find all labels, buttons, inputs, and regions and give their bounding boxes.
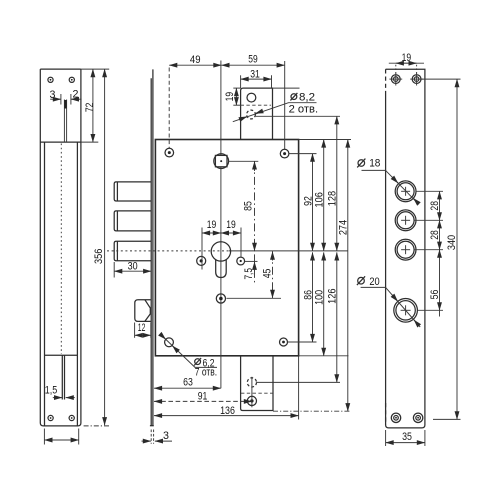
tab hidden hole circle bbox=[247, 110, 256, 119]
dim 106 bbox=[314, 140, 326, 251]
svg-text:19: 19 bbox=[226, 219, 236, 231]
svg-text:28: 28 bbox=[429, 201, 441, 211]
dim 128 bbox=[327, 116, 339, 251]
dim 72 bbox=[84, 69, 96, 142]
svg-text:92: 92 bbox=[302, 196, 314, 206]
plate screw hole top-left bbox=[389, 73, 402, 86]
deadbolt 1 bbox=[114, 182, 151, 201]
dim 274 bbox=[338, 140, 350, 412]
faceplate inner left fold line bbox=[44, 142, 46, 426]
latch hole D dia 20 bbox=[394, 299, 418, 323]
lock case body outline bbox=[155, 140, 298, 356]
bottom tab vertical line bbox=[251, 377, 253, 408]
plate screw hole bottom-right bbox=[413, 413, 422, 422]
dim 85 line dashdot bbox=[242, 161, 254, 283]
euro cylinder keyhole bbox=[211, 242, 230, 278]
top tab outline bbox=[241, 88, 273, 139]
dim 30 bbox=[114, 261, 151, 278]
extension of 72 dim at y=142 bbox=[81, 141, 98, 143]
crossbolt hole B bbox=[395, 210, 416, 231]
fixing hole right of cylinder bbox=[237, 257, 245, 265]
horizontal centerline bbox=[107, 250, 348, 252]
svg-text:63: 63 bbox=[183, 376, 193, 388]
dim 126 bbox=[327, 252, 339, 382]
dim 19 right of axis bbox=[221, 219, 241, 233]
svg-text:3: 3 bbox=[163, 430, 169, 442]
bottom tab hidden hole bbox=[247, 378, 256, 387]
screw hole top-right bbox=[69, 77, 74, 82]
svg-text:19: 19 bbox=[224, 92, 236, 102]
svg-text:356: 356 bbox=[93, 249, 105, 264]
svg-text:8,2: 8,2 bbox=[299, 91, 315, 103]
svg-text:18: 18 bbox=[369, 157, 380, 169]
strike box plate outline bbox=[386, 69, 425, 428]
svg-text:19: 19 bbox=[402, 52, 412, 64]
faceplate inner right fold line bbox=[76, 142, 78, 426]
dim 28 lower bbox=[414, 220, 444, 249]
case screw hole upper-right bbox=[280, 149, 316, 158]
dim 340 bbox=[422, 79, 461, 419]
tab dashed line bbox=[241, 104, 271, 106]
bottom tab dashed line bbox=[241, 392, 273, 394]
svg-text:91: 91 bbox=[198, 390, 208, 402]
svg-text:19: 19 bbox=[207, 219, 217, 231]
latch bolt bbox=[135, 300, 151, 322]
svg-text:20: 20 bbox=[369, 276, 379, 288]
svg-text:274: 274 bbox=[338, 220, 350, 235]
vertical axis line through spindle and keyhole bbox=[220, 61, 222, 156]
svg-text:128: 128 bbox=[327, 191, 339, 206]
screw hole bottom-right bbox=[69, 415, 74, 420]
svg-text:31: 31 bbox=[250, 68, 260, 80]
svg-text:100: 100 bbox=[314, 290, 326, 305]
dim 49 dashed extension line bbox=[168, 68, 170, 149]
tab hole circle bbox=[247, 93, 256, 102]
dim 19 tab bbox=[224, 88, 241, 105]
dim 3 faceplate thickness bbox=[142, 430, 173, 444]
bottom tab outline bbox=[241, 356, 273, 411]
callout dia 6,2 7 holes bbox=[160, 334, 217, 378]
svg-text:340: 340 bbox=[446, 235, 458, 250]
faceplate bottom width dim (unlabeled) bbox=[44, 429, 78, 445]
dim 63 bbox=[154, 376, 221, 388]
dim 19 left of axis bbox=[202, 219, 221, 233]
dim 59 right extension line bbox=[284, 61, 286, 149]
svg-text:2: 2 bbox=[73, 89, 79, 101]
bottom slot 1.5mm lines bbox=[62, 355, 64, 399]
svg-text:7 отв.: 7 отв. bbox=[195, 366, 217, 378]
plate screw hole top-right bbox=[410, 73, 423, 86]
dim 3-2 ticks and arrows bbox=[50, 94, 81, 105]
dim 356 bbox=[84, 69, 110, 426]
svg-text:56: 56 bbox=[429, 290, 441, 300]
svg-text:106: 106 bbox=[314, 192, 326, 207]
dim 56 bbox=[418, 250, 443, 317]
deadbolt 2 bbox=[114, 211, 151, 231]
latch slot lines top bbox=[64, 100, 66, 143]
callout dia 20 bbox=[357, 276, 420, 327]
dashdot extension at bottom right bbox=[273, 410, 351, 412]
deadbolt 3 bbox=[114, 241, 151, 261]
dim 1,5 arrows bbox=[53, 397, 75, 399]
svg-text:72: 72 bbox=[84, 103, 96, 113]
dim 136 bbox=[154, 357, 299, 420]
dim 49 bbox=[169, 54, 221, 66]
svg-text:2 отв.: 2 отв. bbox=[289, 103, 319, 115]
case screw hole upper-left bbox=[165, 148, 174, 157]
svg-text:12: 12 bbox=[138, 322, 146, 334]
svg-text:85: 85 bbox=[242, 201, 254, 211]
bottom tab hole bbox=[247, 396, 256, 405]
dim 35 bbox=[386, 430, 425, 446]
dim 100 bbox=[314, 252, 326, 355]
hole below cylinder bbox=[216, 294, 225, 303]
svg-text:28: 28 bbox=[429, 230, 441, 240]
faceplate top section bottom line bbox=[40, 141, 81, 143]
svg-text:136: 136 bbox=[220, 405, 235, 417]
dim 45 bbox=[227, 251, 282, 298]
faceplate dotted centerline bbox=[60, 144, 62, 355]
screw hole top-left bbox=[48, 77, 53, 82]
faceplate top edge extension line bbox=[81, 68, 109, 70]
plate screw hole bottom-left bbox=[391, 413, 400, 422]
dim 91 bbox=[154, 390, 252, 402]
svg-text:126: 126 bbox=[327, 289, 339, 304]
faceplate recess bottom line bbox=[45, 354, 78, 356]
dim 28 upper bbox=[414, 191, 444, 220]
screw hole bottom-left bbox=[48, 415, 53, 420]
crossbolt hole C bbox=[395, 239, 416, 260]
callout dia 18 bbox=[357, 157, 419, 204]
svg-text:86: 86 bbox=[302, 290, 314, 300]
dim 7,5 bbox=[243, 261, 258, 279]
dim 19 extension lines bbox=[202, 228, 241, 270]
top tab edge extension bbox=[273, 87, 300, 89]
dim 92 bbox=[302, 154, 314, 251]
dim 31 bbox=[241, 68, 272, 88]
case screw hole lower-left bbox=[165, 338, 174, 347]
svg-text:45: 45 bbox=[261, 269, 273, 279]
faceplate edge-on lines bbox=[150, 69, 154, 425]
dim 12 bbox=[135, 322, 151, 338]
svg-text:30: 30 bbox=[128, 261, 138, 273]
crossbolt hole A bbox=[395, 181, 416, 202]
dim 86 bbox=[302, 252, 314, 342]
callout dia 8,2 2 holes bbox=[233, 91, 318, 121]
svg-text:49: 49 bbox=[190, 54, 201, 66]
svg-text:35: 35 bbox=[402, 431, 412, 443]
spindle square hole bbox=[214, 154, 258, 169]
case screw hole lower-right bbox=[280, 338, 317, 346]
dim 59 bbox=[221, 54, 284, 66]
fixing hole left of cylinder bbox=[197, 256, 206, 265]
svg-text:7,5: 7,5 bbox=[243, 268, 255, 280]
right extension lines bbox=[256, 116, 351, 382]
faceplate front view outline bbox=[40, 69, 81, 426]
dim 19 top of strike plate bbox=[389, 52, 424, 74]
svg-text:1,5: 1,5 bbox=[45, 385, 58, 397]
svg-text:59: 59 bbox=[248, 54, 257, 66]
